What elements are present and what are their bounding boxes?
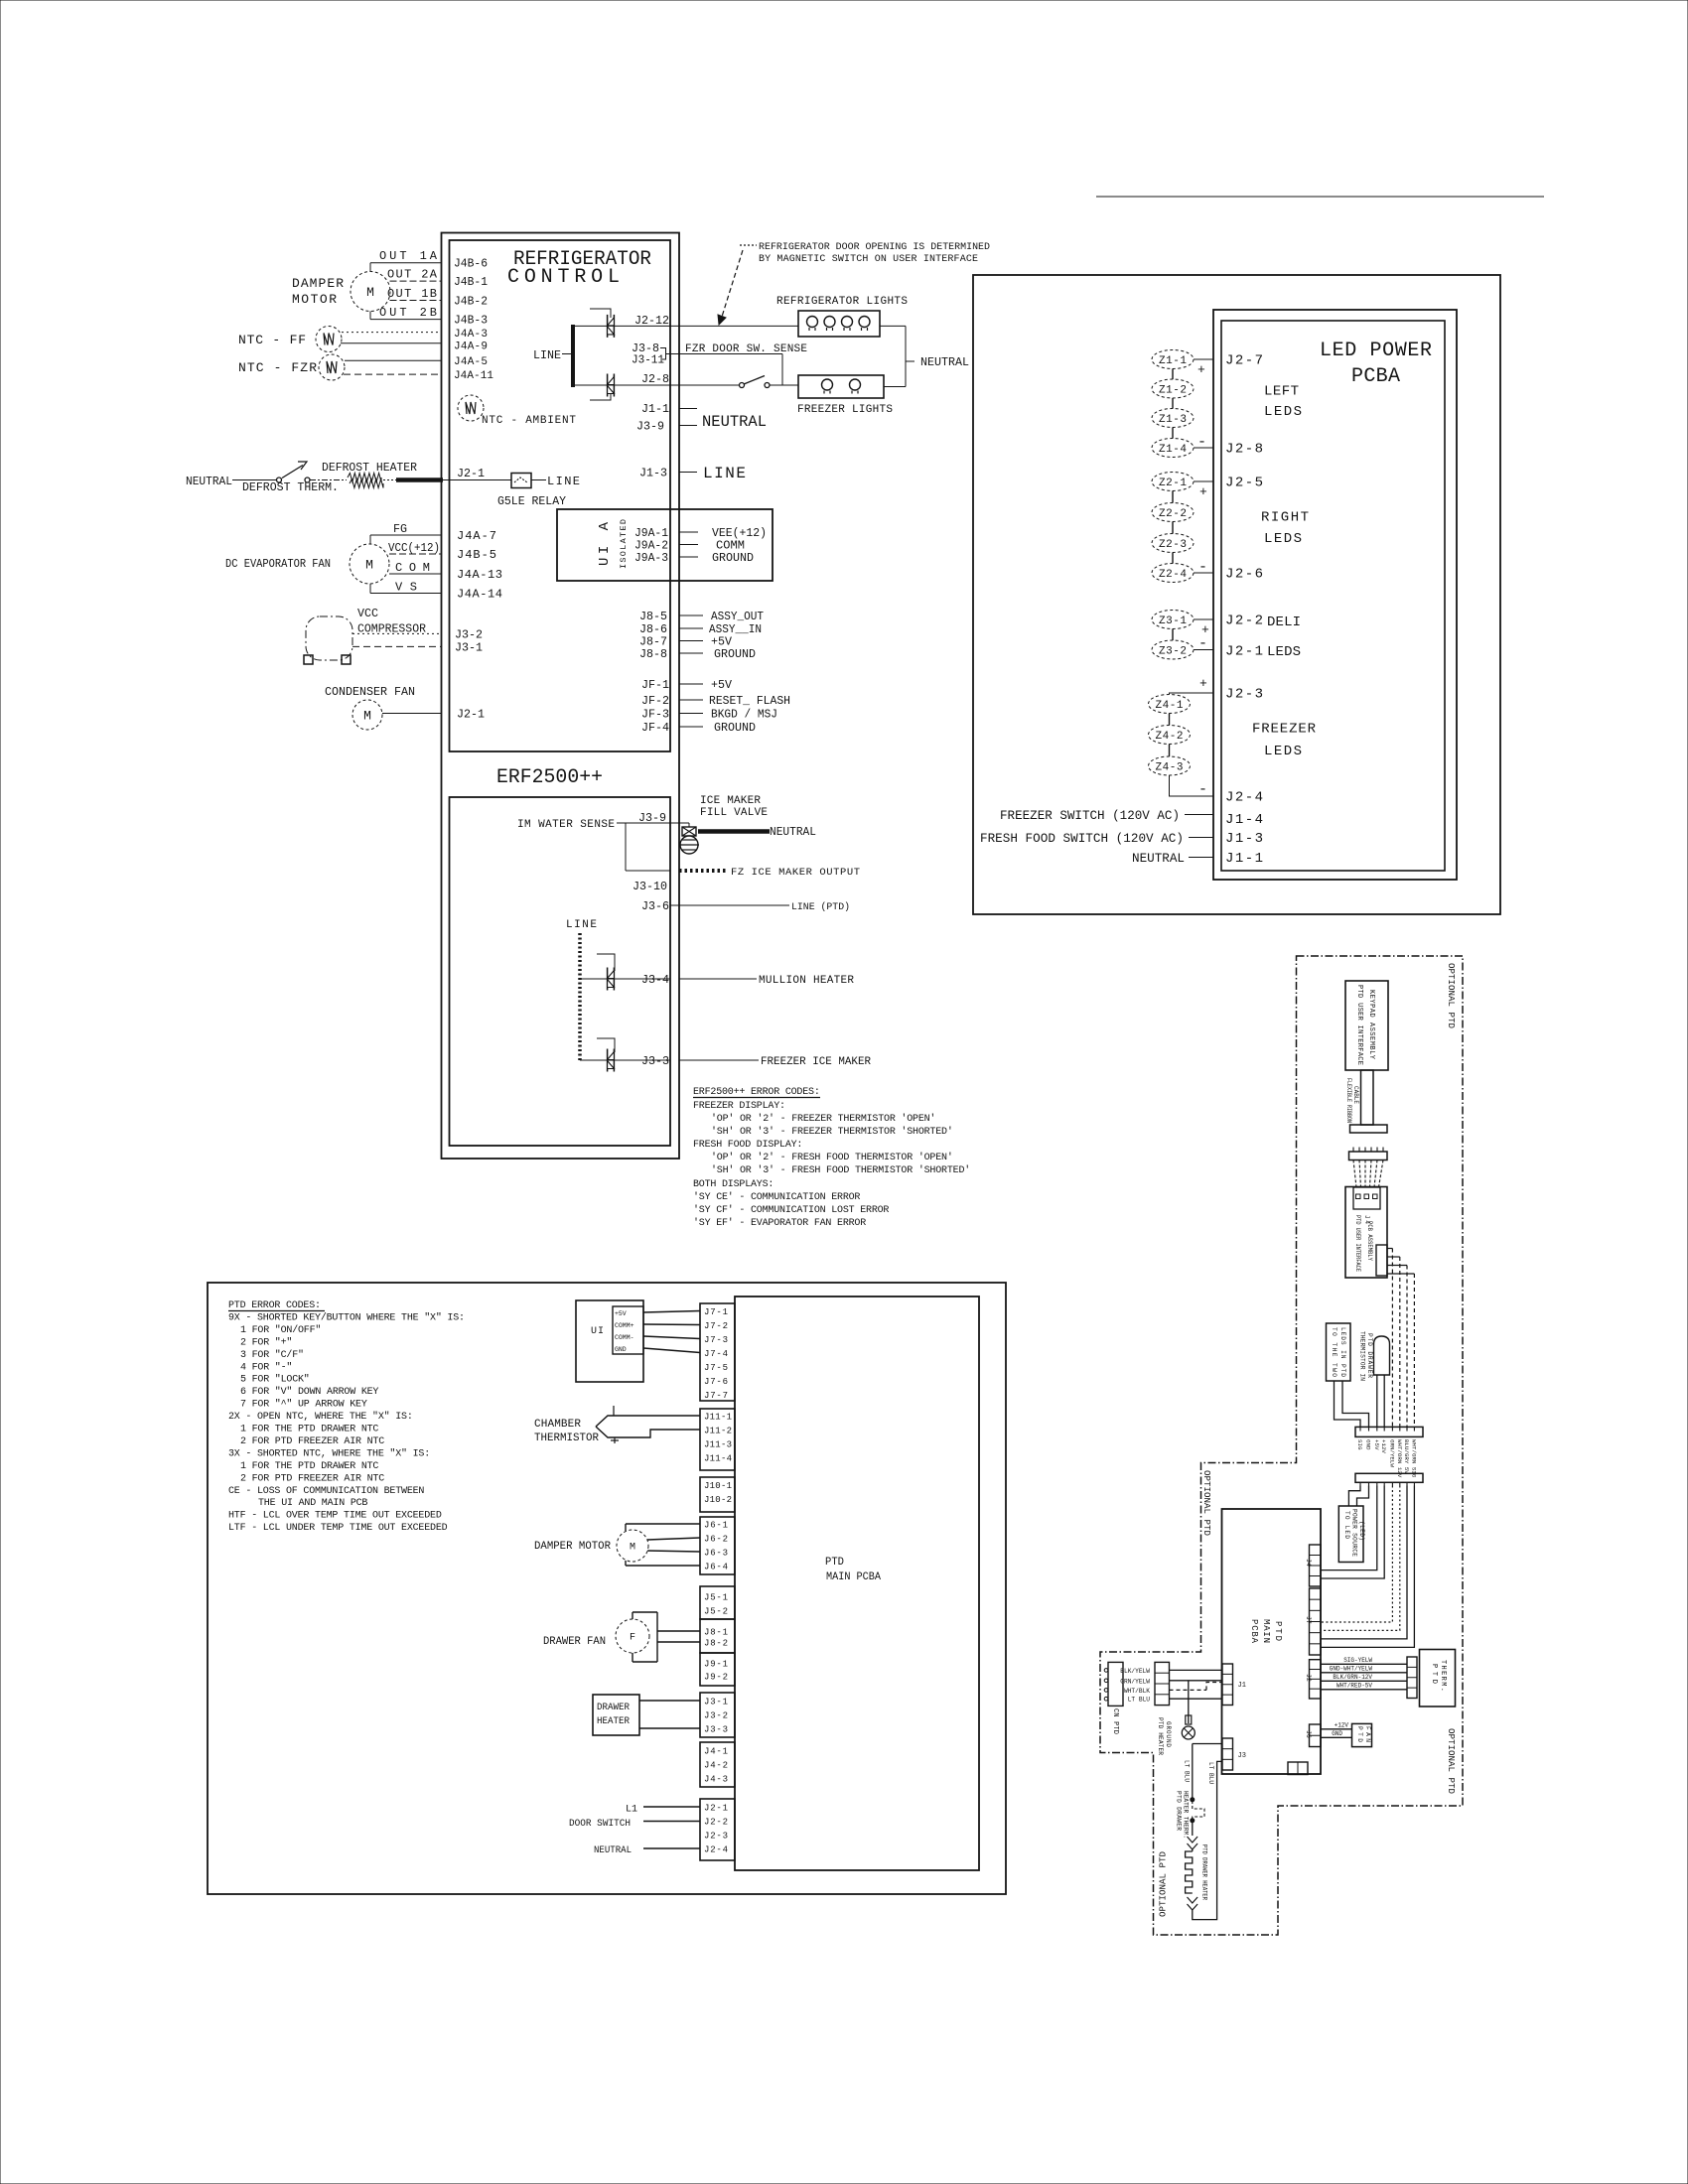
svg-text:Z4-1: Z4-1 [1156, 700, 1184, 712]
svg-text:J4B-2: J4B-2 [454, 295, 488, 309]
svg-text:MULLION HEATER: MULLION HEATER [759, 975, 854, 987]
svg-text:BLU/GRY 5V: BLU/GRY 5V [1403, 1439, 1410, 1474]
svg-text:1 FOR THE PTD DRAWER NTC: 1 FOR THE PTD DRAWER NTC [240, 1461, 378, 1472]
svg-text:DAMPER: DAMPER [292, 276, 344, 291]
svg-text:J5-1: J5-1 [704, 1593, 728, 1603]
svg-text:+5V: +5V [711, 678, 733, 692]
svg-text:+: + [1197, 362, 1205, 377]
svg-text:THERMISTOR IN: THERMISTOR IN [1359, 1331, 1366, 1381]
svg-text:NEUTRAL: NEUTRAL [702, 413, 767, 431]
svg-text:Z1-4: Z1-4 [1159, 444, 1187, 456]
svg-text:J3-3: J3-3 [704, 1725, 728, 1735]
svg-text:Z2-3: Z2-3 [1159, 539, 1187, 551]
svg-text:MAIN: MAIN [1261, 1619, 1271, 1643]
svg-text:BY MAGNETIC SWITCH ON USER INT: BY MAGNETIC SWITCH ON USER INTERFACE [759, 254, 978, 265]
svg-text:OUT 2A: OUT 2A [387, 268, 438, 282]
svg-text:J1-3: J1-3 [1225, 831, 1263, 847]
svg-text:J1: J1 [1238, 1682, 1246, 1690]
svg-text:GND: GND [615, 1346, 627, 1353]
svg-text:OUT 1A: OUT 1A [379, 249, 438, 263]
svg-text:J4B-5: J4B-5 [457, 548, 496, 562]
svg-text:CE - LOSS OF COMMUNICATION BET: CE - LOSS OF COMMUNICATION BETWEEN [228, 1486, 424, 1497]
svg-text:FREEZER DISPLAY:: FREEZER DISPLAY: [693, 1101, 785, 1112]
svg-text:Z4-2: Z4-2 [1156, 731, 1184, 743]
svg-text:NEUTRAL: NEUTRAL [594, 1845, 632, 1856]
svg-text:GROUND: GROUND [714, 721, 756, 735]
svg-text:-: - [1198, 635, 1207, 652]
svg-text:J7-5: J7-5 [704, 1363, 728, 1373]
svg-text:JF-4: JF-4 [641, 721, 669, 735]
svg-text:WHT/GRN SIG: WHT/GRN SIG [1410, 1439, 1417, 1478]
svg-text:J4B-6: J4B-6 [454, 257, 488, 271]
svg-text:Z1-1: Z1-1 [1159, 355, 1187, 367]
svg-text:OPTIONAL PTD: OPTIONAL PTD [1446, 963, 1457, 1028]
svg-text:GRN/YELW: GRN/YELW [1388, 1439, 1395, 1467]
svg-text:UI A: UI A [597, 521, 613, 566]
svg-text:FLEXIBLE RIBBON: FLEXIBLE RIBBON [1345, 1078, 1352, 1123]
svg-text:J8-5: J8-5 [639, 610, 667, 623]
svg-text:J10-2: J10-2 [704, 1495, 732, 1505]
svg-text:-: - [1197, 434, 1206, 451]
svg-text:BLK/GRN-12V: BLK/GRN-12V [1333, 1674, 1372, 1681]
svg-text:1 FOR "ON/OFF": 1 FOR "ON/OFF" [240, 1324, 321, 1336]
svg-text:M: M [366, 285, 374, 300]
svg-text:JF-2: JF-2 [641, 694, 669, 708]
svg-text:J2-1: J2-1 [1225, 644, 1263, 660]
svg-text:NEUTRAL: NEUTRAL [770, 825, 816, 839]
svg-text:LINE: LINE [703, 465, 746, 482]
svg-text:CONTROL: CONTROL [507, 266, 620, 289]
svg-text:J11-3: J11-3 [704, 1440, 732, 1450]
svg-text:J4-2: J4-2 [704, 1761, 728, 1771]
svg-text:DRAWER FAN: DRAWER FAN [543, 1636, 606, 1648]
svg-text:J4B-1: J4B-1 [454, 275, 488, 289]
svg-text:J3-9: J3-9 [636, 420, 664, 434]
svg-text:CHAMBER: CHAMBER [534, 1419, 581, 1431]
svg-text:PTD ERROR CODES:: PTD ERROR CODES: [228, 1300, 321, 1311]
svg-text:WHT/RED-5V: WHT/RED-5V [1336, 1682, 1372, 1689]
svg-text:COMPRESSOR: COMPRESSOR [357, 622, 426, 636]
svg-text:LEDS: LEDS [1264, 744, 1302, 759]
svg-text:J2-1: J2-1 [457, 708, 485, 722]
svg-text:'SY EF' - EVAPORATOR FAN ERROR: 'SY EF' - EVAPORATOR FAN ERROR [693, 1217, 866, 1229]
svg-text:GND: GND [1332, 1730, 1342, 1737]
svg-text:REFRIGERATOR DOOR OPENING IS D: REFRIGERATOR DOOR OPENING IS DETERMINED [759, 242, 990, 253]
svg-text:KEYPAD ASSEMBLY: KEYPAD ASSEMBLY [1367, 990, 1375, 1060]
svg-text:J7: J7 [1305, 1616, 1312, 1624]
svg-text:1 FOR THE PTD DRAWER NTC: 1 FOR THE PTD DRAWER NTC [240, 1425, 378, 1435]
svg-text:PTD DRAWER: PTD DRAWER [1176, 1791, 1183, 1831]
svg-text:J7-4: J7-4 [704, 1349, 728, 1359]
svg-text:J4: J4 [1305, 1559, 1312, 1567]
svg-text:LINE: LINE [533, 348, 561, 362]
svg-text:LEDS: LEDS [1264, 404, 1302, 420]
svg-text:J4A-5: J4A-5 [454, 356, 488, 368]
svg-text:SIG-YELW: SIG-YELW [1343, 1657, 1372, 1664]
svg-text:CABLE: CABLE [1352, 1086, 1359, 1104]
svg-text:LEDS: LEDS [1264, 531, 1302, 547]
svg-text:+: + [1199, 676, 1207, 691]
svg-text:HEATER: HEATER [597, 1716, 630, 1727]
svg-text:CONDENSER FAN: CONDENSER FAN [325, 685, 415, 699]
svg-text:J3-1: J3-1 [455, 641, 483, 655]
svg-text:DC EVAPORATOR FAN: DC EVAPORATOR FAN [225, 557, 331, 571]
svg-text:J3: J3 [1238, 1752, 1246, 1760]
svg-text:GROUND: GROUND [714, 647, 756, 661]
svg-text:J2-2: J2-2 [1225, 614, 1263, 629]
svg-text:RESET_ FLASH: RESET_ FLASH [709, 694, 790, 708]
svg-text:THERMISTOR: THERMISTOR [534, 1433, 599, 1444]
svg-text:BOTH DISPLAYS:: BOTH DISPLAYS: [693, 1179, 774, 1190]
svg-text:J8-8: J8-8 [639, 647, 667, 661]
svg-text:DAMPER MOTOR: DAMPER MOTOR [534, 1541, 611, 1553]
svg-text:LTF - LCL UNDER TEMP TIME OUT: LTF - LCL UNDER TEMP TIME OUT EXCEEDED [228, 1523, 448, 1534]
svg-text:DEFROST THERM.: DEFROST THERM. [242, 480, 339, 494]
svg-text:M: M [630, 1543, 635, 1554]
svg-text:PTD USER INTERFACE: PTD USER INTERFACE [1354, 1215, 1361, 1272]
svg-text:FG: FG [393, 522, 407, 536]
svg-text:WHT/ORN 12V: WHT/ORN 12V [1396, 1439, 1403, 1478]
svg-text:FRESH FOOD SWITCH (120V AC): FRESH FOOD SWITCH (120V AC) [980, 831, 1184, 846]
svg-text:FREEZER ICE MAKER: FREEZER ICE MAKER [761, 1056, 871, 1068]
svg-text:LEFT: LEFT [1264, 384, 1299, 400]
svg-text:J8-1: J8-1 [704, 1628, 728, 1638]
svg-text:HEATER THERM.: HEATER THERM. [1183, 1791, 1190, 1839]
svg-text:IM WATER SENSE: IM WATER SENSE [517, 819, 615, 831]
svg-text:J4A-14: J4A-14 [457, 588, 502, 602]
svg-text:DOOR SWITCH: DOOR SWITCH [569, 1819, 631, 1830]
svg-text:LT BLU: LT BLU [1184, 1760, 1191, 1782]
svg-text:WHT/BLK: WHT/BLK [1124, 1688, 1150, 1695]
svg-text:(LED): (LED) [1358, 1521, 1365, 1541]
svg-text:DRAWER: DRAWER [597, 1703, 630, 1713]
svg-text:FREEZER SWITCH (120V AC): FREEZER SWITCH (120V AC) [1000, 808, 1180, 823]
svg-text:J3-10: J3-10 [633, 880, 667, 893]
svg-text:J4A-7: J4A-7 [457, 529, 496, 543]
svg-text:J1-1: J1-1 [641, 402, 669, 416]
svg-text:FREEZER: FREEZER [1252, 722, 1317, 738]
svg-text:J3-6: J3-6 [641, 899, 669, 913]
svg-text:J6-1: J6-1 [704, 1521, 728, 1531]
svg-text:Z3-1: Z3-1 [1159, 615, 1187, 627]
svg-text:J5-2: J5-2 [704, 1607, 728, 1617]
svg-text:GND-WHT/YELW: GND-WHT/YELW [1330, 1665, 1373, 1672]
svg-text:LINE: LINE [566, 919, 597, 931]
svg-text:PTD HEATER: PTD HEATER [1157, 1717, 1164, 1755]
svg-text:PTD: PTD [1356, 1726, 1363, 1742]
svg-text:SIG: SIG [1356, 1439, 1363, 1450]
svg-text:J6: J6 [1305, 1730, 1312, 1738]
svg-text:BLK/YELW: BLK/YELW [1120, 1668, 1150, 1675]
svg-text:ERF2500++: ERF2500++ [496, 766, 603, 789]
svg-text:+12V: +12V [1380, 1439, 1387, 1453]
svg-text:LEDS: LEDS [1267, 644, 1301, 660]
svg-text:COM: COM [395, 561, 430, 575]
svg-text:PTD: PTD [825, 1557, 844, 1569]
svg-text:+12V: +12V [1335, 1722, 1349, 1729]
svg-text:G5LE RELAY: G5LE RELAY [497, 494, 566, 508]
svg-text:J3-2: J3-2 [704, 1711, 728, 1721]
svg-text:J4A-3: J4A-3 [454, 329, 488, 341]
svg-text:J4A-11: J4A-11 [454, 370, 493, 382]
svg-text:J1-1: J1-1 [1225, 851, 1263, 867]
svg-text:J2: J2 [1305, 1674, 1312, 1682]
svg-text:M: M [365, 558, 373, 573]
svg-text:Z3-2: Z3-2 [1159, 646, 1187, 658]
svg-text:VCC(+12): VCC(+12) [388, 541, 440, 555]
svg-text:J3-2: J3-2 [455, 628, 483, 642]
svg-text:2 FOR PTD FREEZER AIR NTC: 2 FOR PTD FREEZER AIR NTC [240, 1473, 384, 1484]
svg-text:J1-4: J1-4 [1225, 812, 1263, 828]
svg-text:Z4-3: Z4-3 [1156, 762, 1184, 774]
svg-text:Z2-4: Z2-4 [1159, 569, 1187, 581]
svg-text:Z1-2: Z1-2 [1159, 385, 1187, 397]
svg-text:'OP' OR '2' - FRESH FOOD THERM: 'OP' OR '2' - FRESH FOOD THERMISTOR 'OPE… [711, 1152, 953, 1163]
svg-text:POWER SOURCE: POWER SOURCE [1351, 1509, 1358, 1557]
svg-text:J8-2: J8-2 [704, 1639, 728, 1649]
svg-text:J9-2: J9-2 [704, 1673, 728, 1683]
svg-text:J3-3: J3-3 [641, 1054, 669, 1068]
svg-text:TO THE TWO: TO THE TWO [1331, 1327, 1337, 1377]
svg-text:PTD: PTD [1273, 1621, 1283, 1641]
svg-text:J7-1: J7-1 [704, 1307, 728, 1317]
svg-text:LT BLU: LT BLU [1207, 1762, 1214, 1784]
svg-text:J2-8: J2-8 [641, 372, 669, 386]
svg-text:LEDS IN PTD: LEDS IN PTD [1339, 1327, 1346, 1377]
svg-text:DEFROST HEATER: DEFROST HEATER [322, 461, 417, 475]
svg-text:OPTIONAL PTD: OPTIONAL PTD [1201, 1470, 1212, 1536]
svg-text:4 FOR "-": 4 FOR "-" [240, 1361, 292, 1373]
svg-text:J2-5: J2-5 [1225, 476, 1263, 491]
svg-text:GROUND: GROUND [712, 551, 754, 565]
svg-text:J2-12: J2-12 [634, 314, 669, 328]
svg-text:JF-1: JF-1 [641, 678, 669, 692]
svg-text:ASSY_OUT: ASSY_OUT [711, 610, 764, 623]
svg-text:Z2-1: Z2-1 [1159, 478, 1187, 489]
svg-text:-: - [1198, 781, 1207, 798]
svg-text:GROUND: GROUND [1165, 1721, 1172, 1747]
svg-text:NTC - FF: NTC - FF [238, 333, 306, 347]
svg-text:7 FOR "^" UP ARROW KEY: 7 FOR "^" UP ARROW KEY [240, 1399, 367, 1411]
svg-text:ICE MAKER: ICE MAKER [700, 795, 761, 807]
svg-text:THERM.: THERM. [1439, 1660, 1447, 1692]
svg-text:J4A-9: J4A-9 [454, 341, 488, 353]
svg-text:HTF - LCL OVER TEMP TIME OUT E: HTF - LCL OVER TEMP TIME OUT EXCEEDED [228, 1511, 442, 1522]
svg-text:J2-8: J2-8 [1225, 442, 1263, 458]
svg-text:PTD DRAWER: PTD DRAWER [1366, 1333, 1373, 1378]
svg-text:J11-2: J11-2 [704, 1427, 732, 1436]
svg-text:COMM+: COMM+ [615, 1322, 634, 1329]
svg-text:5 FOR "LOCK": 5 FOR "LOCK" [240, 1374, 310, 1386]
svg-text:-: - [1198, 559, 1207, 576]
svg-text:J11-1: J11-1 [704, 1413, 732, 1423]
svg-text:J3-9: J3-9 [638, 811, 666, 825]
svg-text:J2-4: J2-4 [1225, 790, 1263, 806]
svg-text:ERF2500++ ERROR CODES:: ERF2500++ ERROR CODES: [693, 1087, 820, 1098]
svg-text:J3-1: J3-1 [704, 1698, 728, 1707]
svg-text:J6-2: J6-2 [704, 1535, 728, 1545]
svg-text:VCC: VCC [357, 607, 378, 620]
svg-text:9X - SHORTED KEY/BUTTON WHERE: 9X - SHORTED KEY/BUTTON WHERE THE "X" IS… [228, 1311, 465, 1323]
svg-text:L1: L1 [626, 1805, 637, 1816]
svg-text:PCB ASSEMBLY: PCB ASSEMBLY [1366, 1221, 1373, 1261]
svg-text:3X - SHORTED NTC, WHERE THE "X: 3X - SHORTED NTC, WHERE THE "X" IS: [228, 1447, 430, 1459]
svg-text:6 FOR "V" DOWN ARROW KEY: 6 FOR "V" DOWN ARROW KEY [240, 1386, 378, 1398]
svg-text:MAIN PCBA: MAIN PCBA [826, 1571, 881, 1583]
svg-text:J9A-3: J9A-3 [634, 551, 668, 565]
svg-text:J6-3: J6-3 [704, 1549, 728, 1559]
svg-text:J2-3: J2-3 [704, 1832, 728, 1842]
svg-text:NEUTRAL: NEUTRAL [1132, 851, 1185, 866]
svg-text:'SH' OR '3' - FREEZER THERMIST: 'SH' OR '3' - FREEZER THERMISTOR 'SHORTE… [711, 1126, 953, 1138]
svg-text:PTD USER INTERFACE: PTD USER INTERFACE [1355, 985, 1363, 1065]
svg-text:PCBA: PCBA [1351, 365, 1400, 388]
svg-text:3 FOR "C/F": 3 FOR "C/F" [240, 1349, 304, 1361]
svg-text:LT BLU: LT BLU [1128, 1697, 1151, 1704]
svg-text:J7-6: J7-6 [704, 1377, 728, 1387]
svg-text:J1-3: J1-3 [639, 467, 667, 480]
svg-text:PCBA: PCBA [1249, 1619, 1259, 1644]
svg-text:J2-2: J2-2 [704, 1818, 728, 1828]
svg-text:GRN/YELW: GRN/YELW [1120, 1678, 1150, 1685]
svg-text:FRESH FOOD DISPLAY:: FRESH FOOD DISPLAY: [693, 1140, 802, 1151]
svg-text:LINE: LINE [547, 475, 580, 488]
svg-text:J4A-13: J4A-13 [457, 568, 502, 582]
svg-text:NTC - AMBIENT: NTC - AMBIENT [482, 415, 576, 427]
svg-text:FREEZER LIGHTS: FREEZER LIGHTS [797, 404, 893, 416]
svg-text:FILL VALVE: FILL VALVE [700, 807, 768, 819]
svg-text:ISOLATED: ISOLATED [619, 519, 629, 569]
svg-text:F: F [630, 1633, 635, 1644]
svg-text:M: M [363, 709, 371, 724]
svg-text:BKGD / MSJ: BKGD / MSJ [711, 708, 777, 722]
svg-text:J4-1: J4-1 [704, 1747, 728, 1757]
svg-text:CN PTD: CN PTD [1111, 1708, 1119, 1734]
svg-text:J10-1: J10-1 [704, 1481, 732, 1491]
svg-text:'SY CF' - COMMUNICATION LOST E: 'SY CF' - COMMUNICATION LOST ERROR [693, 1204, 889, 1216]
svg-text:OPTIONAL PTD: OPTIONAL PTD [1158, 1851, 1169, 1917]
svg-text:OUT 1B: OUT 1B [387, 287, 437, 301]
svg-text:+: + [1199, 484, 1207, 499]
svg-text:J2-4: J2-4 [704, 1845, 728, 1855]
svg-text:NEUTRAL: NEUTRAL [920, 355, 969, 369]
svg-text:J9-1: J9-1 [704, 1660, 728, 1670]
svg-text:FAN: FAN [1364, 1726, 1371, 1742]
svg-text:J6-4: J6-4 [704, 1563, 728, 1572]
svg-text:J7-2: J7-2 [704, 1321, 728, 1331]
svg-text:2X - OPEN NTC, WHERE THE "X" I: 2X - OPEN NTC, WHERE THE "X" IS: [228, 1411, 413, 1423]
svg-text:PTD DRAWER HEATER: PTD DRAWER HEATER [1201, 1844, 1208, 1900]
svg-text:JF-3: JF-3 [641, 708, 669, 722]
svg-text:J3-11: J3-11 [632, 353, 664, 367]
svg-text:J4-3: J4-3 [704, 1775, 728, 1785]
svg-text:VS: VS [395, 581, 417, 595]
svg-text:GND: GND [1365, 1439, 1372, 1450]
svg-text:RIGHT: RIGHT [1261, 510, 1309, 526]
svg-text:J2-6: J2-6 [1225, 567, 1263, 583]
svg-text:J2-7: J2-7 [1225, 353, 1263, 369]
svg-text:J2-3: J2-3 [1225, 687, 1263, 703]
svg-text:+5V: +5V [1373, 1439, 1380, 1450]
svg-text:LED POWER: LED POWER [1320, 340, 1432, 362]
svg-text:Z2-2: Z2-2 [1159, 508, 1187, 520]
svg-text:UI: UI [591, 1326, 604, 1337]
svg-text:J11-4: J11-4 [704, 1454, 732, 1464]
svg-text:'SH' OR '3' - FRESH FOOD THERM: 'SH' OR '3' - FRESH FOOD THERMISTOR 'SHO… [711, 1164, 970, 1176]
svg-text:OUT 2B: OUT 2B [379, 306, 437, 320]
svg-text:+5V: +5V [615, 1310, 627, 1317]
svg-text:LINE (PTD): LINE (PTD) [791, 901, 850, 913]
svg-text:FZR DOOR SW. SENSE: FZR DOOR SW. SENSE [685, 343, 807, 355]
svg-text:2 FOR PTD FREEZER AIR NTC: 2 FOR PTD FREEZER AIR NTC [240, 1436, 384, 1447]
svg-text:FZ ICE MAKER OUTPUT: FZ ICE MAKER OUTPUT [731, 867, 860, 879]
svg-text:'OP' OR '2' - FREEZER THERMIST: 'OP' OR '2' - FREEZER THERMISTOR 'OPEN' [711, 1113, 935, 1125]
svg-text:COMM-: COMM- [615, 1334, 634, 1341]
svg-text:REFRIGERATOR LIGHTS: REFRIGERATOR LIGHTS [776, 296, 908, 308]
svg-text:TO LED: TO LED [1343, 1511, 1350, 1539]
svg-text:'SY CE' - COMMUNICATION ERROR: 'SY CE' - COMMUNICATION ERROR [693, 1191, 860, 1203]
svg-text:NEUTRAL: NEUTRAL [186, 475, 232, 488]
svg-text:J3-4: J3-4 [641, 973, 669, 987]
svg-text:J7-3: J7-3 [704, 1335, 728, 1345]
svg-text:NTC - FZR: NTC - FZR [238, 360, 317, 375]
svg-text:2 FOR "+": 2 FOR "+" [240, 1336, 292, 1348]
svg-text:J7-7: J7-7 [704, 1391, 728, 1401]
svg-text:DELI: DELI [1267, 614, 1301, 630]
svg-text:J4B-3: J4B-3 [454, 314, 488, 328]
svg-text:OPTIONAL PTD: OPTIONAL PTD [1446, 1728, 1457, 1794]
svg-text:J2-1: J2-1 [704, 1804, 728, 1814]
svg-text:THE UI AND MAIN PCB: THE UI AND MAIN PCB [258, 1498, 367, 1509]
svg-text:PTD: PTD [1430, 1664, 1438, 1684]
svg-text:MOTOR: MOTOR [292, 292, 337, 307]
svg-text:J2-1: J2-1 [457, 467, 485, 480]
svg-text:Z1-3: Z1-3 [1159, 414, 1187, 426]
